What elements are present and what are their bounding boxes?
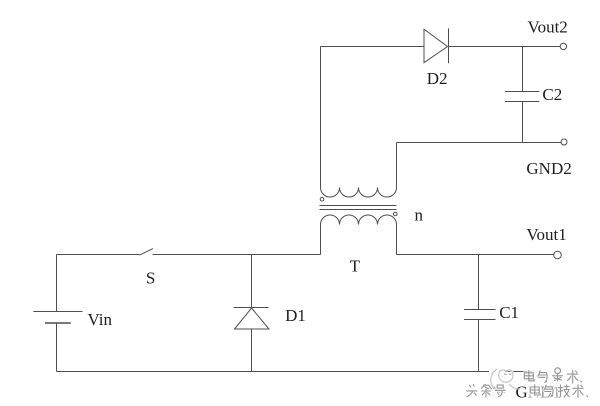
svg-text:GND2: GND2	[526, 159, 571, 178]
svg-text:D2: D2	[427, 69, 448, 88]
svg-text:C2: C2	[542, 85, 562, 104]
svg-text:C1: C1	[499, 303, 519, 322]
svg-text:D1: D1	[285, 306, 306, 325]
svg-text:Vout2: Vout2	[528, 18, 568, 37]
svg-text:Vin: Vin	[88, 310, 113, 329]
svg-text:Vout1: Vout1	[526, 225, 566, 244]
svg-text:T: T	[350, 257, 361, 276]
svg-text:S: S	[146, 269, 155, 288]
svg-text:n: n	[415, 205, 424, 224]
